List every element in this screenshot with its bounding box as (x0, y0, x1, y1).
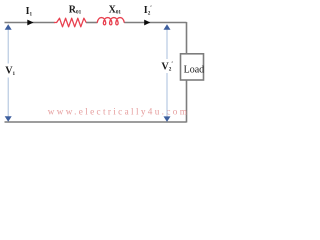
wire between resistor and inductor (86, 22, 97, 24)
svg-text:Load: Load (184, 64, 205, 75)
voltage arrow V2' shaft upper (166, 27, 168, 59)
voltage arrow V2' shaft lower (166, 73, 168, 119)
current arrowhead I1 (27, 20, 33, 26)
svg-text:V1: V1 (5, 66, 15, 77)
current arrowhead I2' (144, 20, 150, 26)
wire bottom (5, 121, 187, 123)
voltage arrow V1 head bottom (5, 116, 12, 122)
svg-text:V2′: V2′ (161, 61, 173, 72)
voltage arrow V1 shaft lower (7, 78, 9, 120)
svg-text:I2′: I2′ (144, 5, 153, 16)
svg-text:www.electrically4u.com: www.electrically4u.com (48, 106, 189, 116)
voltage arrow V2' head top (164, 24, 171, 30)
svg-text:X01: X01 (109, 4, 122, 15)
resistor R01 (55, 18, 87, 27)
svg-text:I1: I1 (26, 6, 33, 17)
inductor X01 (97, 18, 124, 25)
load box (181, 54, 204, 80)
wire top left segment (5, 22, 55, 24)
voltage arrow V1 head top (5, 24, 12, 30)
wire right vertical upper (186, 22, 188, 54)
voltage arrow V1 shaft upper (7, 27, 9, 64)
wire top right segment (125, 22, 187, 24)
svg-text:R01: R01 (69, 4, 82, 15)
voltage arrow V2' head bottom (164, 116, 171, 122)
wire right vertical lower (186, 80, 188, 123)
